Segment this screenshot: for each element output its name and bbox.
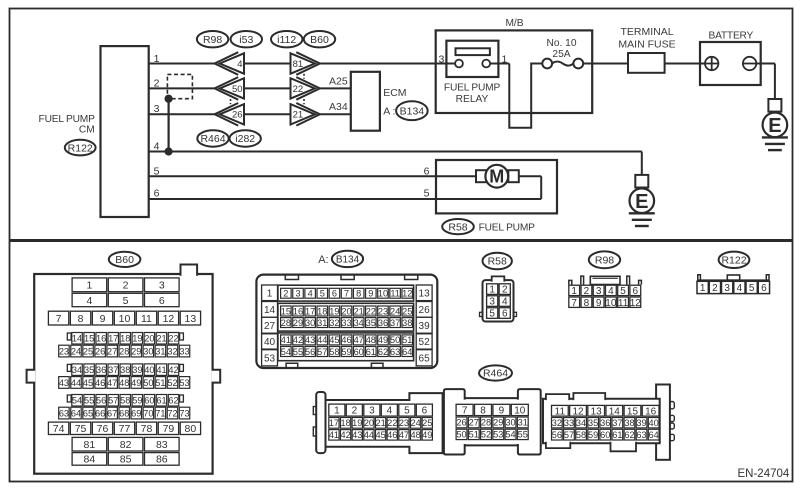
svg-text:63: 63 bbox=[636, 430, 646, 440]
svg-text:27: 27 bbox=[264, 321, 276, 332]
svg-text:15: 15 bbox=[84, 334, 94, 344]
svg-text:25: 25 bbox=[83, 346, 93, 356]
svg-text:64: 64 bbox=[402, 347, 412, 357]
svg-text:19: 19 bbox=[329, 306, 339, 316]
svg-text:4: 4 bbox=[502, 297, 508, 308]
svg-text:2: 2 bbox=[502, 285, 508, 296]
svg-text:CM: CM bbox=[79, 125, 95, 136]
svg-text:2: 2 bbox=[584, 286, 590, 297]
svg-text:40: 40 bbox=[649, 418, 659, 428]
svg-text:4: 4 bbox=[86, 295, 92, 307]
svg-text:62: 62 bbox=[624, 430, 634, 440]
svg-text:32: 32 bbox=[167, 346, 177, 356]
svg-text:13: 13 bbox=[591, 406, 603, 417]
svg-text:23: 23 bbox=[59, 346, 69, 356]
svg-text:6: 6 bbox=[422, 406, 428, 417]
svg-text:31: 31 bbox=[518, 418, 528, 428]
svg-text:7: 7 bbox=[571, 298, 577, 309]
svg-text:32: 32 bbox=[552, 418, 562, 428]
svg-text:FUEL PUMP: FUEL PUMP bbox=[444, 82, 501, 93]
svg-text:8: 8 bbox=[78, 313, 84, 325]
svg-text:28: 28 bbox=[481, 418, 491, 428]
svg-text:55: 55 bbox=[293, 347, 303, 357]
svg-text:EN-24704: EN-24704 bbox=[738, 468, 790, 480]
svg-text:21: 21 bbox=[375, 418, 385, 428]
svg-text:5: 5 bbox=[123, 295, 129, 307]
svg-text:3: 3 bbox=[439, 53, 445, 65]
svg-text:35: 35 bbox=[366, 318, 376, 328]
svg-text:51: 51 bbox=[402, 335, 412, 345]
svg-text:27: 27 bbox=[469, 418, 479, 428]
svg-text:50: 50 bbox=[232, 84, 243, 95]
svg-text:33: 33 bbox=[564, 418, 574, 428]
svg-text:R122: R122 bbox=[68, 142, 93, 154]
svg-text:19: 19 bbox=[132, 334, 142, 344]
svg-text:30: 30 bbox=[505, 418, 515, 428]
svg-text:55: 55 bbox=[518, 430, 528, 440]
svg-text:R98: R98 bbox=[203, 34, 222, 46]
svg-text:18: 18 bbox=[120, 334, 130, 344]
svg-text:57: 57 bbox=[317, 347, 327, 357]
svg-text:1: 1 bbox=[571, 286, 577, 297]
svg-text:85: 85 bbox=[120, 454, 132, 466]
svg-text:20: 20 bbox=[144, 334, 154, 344]
svg-text:50: 50 bbox=[390, 335, 400, 345]
svg-text:6: 6 bbox=[502, 309, 508, 320]
svg-text:63: 63 bbox=[390, 347, 400, 357]
svg-text:39: 39 bbox=[636, 418, 646, 428]
svg-text:41: 41 bbox=[329, 430, 339, 440]
svg-text:44: 44 bbox=[364, 430, 374, 440]
svg-text:82: 82 bbox=[120, 439, 132, 451]
svg-text:33: 33 bbox=[179, 346, 189, 356]
svg-text:64: 64 bbox=[649, 430, 659, 440]
svg-text:49: 49 bbox=[422, 430, 432, 440]
svg-text:3: 3 bbox=[369, 406, 375, 417]
svg-text:52: 52 bbox=[167, 378, 177, 388]
svg-text:51: 51 bbox=[155, 378, 165, 388]
svg-text:2: 2 bbox=[123, 280, 129, 292]
svg-text:33: 33 bbox=[341, 318, 351, 328]
svg-text:24: 24 bbox=[390, 306, 400, 316]
svg-text:64: 64 bbox=[71, 408, 81, 418]
svg-text:58: 58 bbox=[120, 396, 130, 406]
svg-text:59: 59 bbox=[588, 430, 598, 440]
svg-text:11: 11 bbox=[141, 313, 152, 325]
svg-text:R58: R58 bbox=[488, 256, 507, 268]
svg-text:68: 68 bbox=[119, 408, 129, 418]
svg-text:RELAY: RELAY bbox=[456, 94, 489, 105]
svg-text:57: 57 bbox=[108, 396, 118, 406]
svg-text:72: 72 bbox=[167, 408, 177, 418]
svg-text:1: 1 bbox=[489, 285, 495, 296]
svg-text:44: 44 bbox=[317, 335, 327, 345]
svg-text:59: 59 bbox=[341, 347, 351, 357]
svg-text:1: 1 bbox=[700, 283, 706, 294]
svg-text:56: 56 bbox=[552, 430, 562, 440]
svg-text:31: 31 bbox=[317, 318, 327, 328]
svg-text:16: 16 bbox=[645, 406, 657, 417]
svg-text:20: 20 bbox=[341, 306, 351, 316]
svg-text:86: 86 bbox=[156, 454, 168, 466]
svg-text:25: 25 bbox=[422, 418, 432, 428]
svg-text:5: 5 bbox=[320, 289, 325, 299]
svg-text:7: 7 bbox=[56, 313, 62, 325]
svg-text:78: 78 bbox=[141, 423, 153, 435]
svg-text:A:: A: bbox=[318, 254, 328, 266]
svg-text:A25: A25 bbox=[329, 75, 348, 87]
svg-text:42: 42 bbox=[168, 365, 178, 375]
svg-text:1: 1 bbox=[267, 288, 273, 299]
svg-text:2: 2 bbox=[352, 406, 358, 417]
svg-text:26: 26 bbox=[95, 346, 105, 356]
svg-text:18: 18 bbox=[340, 418, 350, 428]
svg-text:43: 43 bbox=[352, 430, 362, 440]
svg-text:53: 53 bbox=[264, 353, 276, 364]
svg-text:6: 6 bbox=[332, 289, 337, 299]
svg-text:7: 7 bbox=[462, 406, 468, 417]
svg-text:77: 77 bbox=[119, 423, 131, 435]
svg-text:36: 36 bbox=[378, 318, 388, 328]
svg-text:R464: R464 bbox=[200, 133, 225, 145]
svg-text:29: 29 bbox=[131, 346, 141, 356]
svg-text:21: 21 bbox=[354, 306, 364, 316]
svg-text:58: 58 bbox=[576, 430, 586, 440]
svg-text:39: 39 bbox=[419, 321, 431, 332]
svg-text:32: 32 bbox=[329, 318, 339, 328]
svg-text:29: 29 bbox=[493, 418, 503, 428]
svg-text:54: 54 bbox=[281, 347, 291, 357]
svg-text:46: 46 bbox=[387, 430, 397, 440]
svg-text:58: 58 bbox=[329, 347, 339, 357]
svg-text:14: 14 bbox=[264, 305, 276, 316]
svg-text:31: 31 bbox=[155, 346, 165, 356]
svg-text:12: 12 bbox=[630, 298, 642, 309]
svg-text:54: 54 bbox=[72, 396, 82, 406]
svg-text:18: 18 bbox=[317, 306, 327, 316]
svg-text:5: 5 bbox=[424, 188, 430, 200]
svg-text:43: 43 bbox=[59, 378, 69, 388]
svg-text:71: 71 bbox=[155, 408, 165, 418]
svg-text:9: 9 bbox=[499, 406, 505, 417]
svg-text:i53: i53 bbox=[239, 34, 253, 46]
svg-text:21: 21 bbox=[293, 110, 304, 121]
svg-text:B134: B134 bbox=[336, 255, 360, 266]
svg-text:34: 34 bbox=[354, 318, 364, 328]
svg-text:84: 84 bbox=[84, 454, 96, 466]
svg-text:81: 81 bbox=[293, 59, 304, 70]
svg-text:15: 15 bbox=[627, 406, 639, 417]
svg-text:54: 54 bbox=[505, 430, 515, 440]
svg-text:30: 30 bbox=[143, 346, 153, 356]
svg-text:14: 14 bbox=[72, 334, 82, 344]
svg-text:74: 74 bbox=[53, 423, 65, 435]
svg-text:62: 62 bbox=[378, 347, 388, 357]
svg-text:10: 10 bbox=[378, 289, 388, 299]
svg-text:67: 67 bbox=[107, 408, 117, 418]
svg-text:69: 69 bbox=[131, 408, 141, 418]
svg-text:14: 14 bbox=[609, 406, 621, 417]
svg-text:3: 3 bbox=[295, 289, 300, 299]
svg-text:2: 2 bbox=[283, 289, 288, 299]
svg-text:22: 22 bbox=[168, 334, 178, 344]
svg-text:17: 17 bbox=[305, 306, 315, 316]
svg-text:41: 41 bbox=[281, 335, 291, 345]
svg-text:46: 46 bbox=[341, 335, 351, 345]
svg-text:49: 49 bbox=[378, 335, 388, 345]
svg-text:5: 5 bbox=[489, 309, 495, 320]
svg-text:8: 8 bbox=[584, 298, 590, 309]
svg-text:16: 16 bbox=[293, 306, 303, 316]
svg-text:38: 38 bbox=[402, 318, 412, 328]
svg-text:3: 3 bbox=[724, 283, 730, 294]
svg-text:79: 79 bbox=[163, 423, 175, 435]
svg-text:48: 48 bbox=[366, 335, 376, 345]
svg-text:35: 35 bbox=[84, 365, 94, 375]
svg-text:39: 39 bbox=[132, 365, 142, 375]
svg-text:20: 20 bbox=[364, 418, 374, 428]
svg-text:26: 26 bbox=[419, 305, 431, 316]
svg-text:37: 37 bbox=[390, 318, 400, 328]
svg-text:13: 13 bbox=[419, 288, 431, 299]
svg-text:45: 45 bbox=[329, 335, 339, 345]
svg-text:47: 47 bbox=[354, 335, 364, 345]
svg-text:80: 80 bbox=[185, 423, 197, 435]
svg-text:50: 50 bbox=[456, 430, 466, 440]
svg-text:47: 47 bbox=[107, 378, 117, 388]
svg-text:76: 76 bbox=[97, 423, 109, 435]
svg-text:1: 1 bbox=[334, 406, 340, 417]
svg-text:52: 52 bbox=[481, 430, 491, 440]
svg-text:29: 29 bbox=[293, 318, 303, 328]
svg-text:B60: B60 bbox=[310, 34, 329, 46]
svg-text:65: 65 bbox=[419, 353, 431, 364]
svg-text:A :: A : bbox=[383, 105, 395, 117]
svg-text:6: 6 bbox=[424, 166, 430, 178]
svg-text:B60: B60 bbox=[115, 254, 134, 266]
svg-text:66: 66 bbox=[95, 408, 105, 418]
svg-text:17: 17 bbox=[329, 418, 339, 428]
svg-text:23: 23 bbox=[399, 418, 409, 428]
svg-text:51: 51 bbox=[469, 430, 479, 440]
svg-text:M: M bbox=[489, 167, 504, 187]
svg-text:ECM: ECM bbox=[383, 87, 406, 99]
svg-text:34: 34 bbox=[576, 418, 586, 428]
svg-text:38: 38 bbox=[120, 365, 130, 375]
svg-text:60: 60 bbox=[354, 347, 364, 357]
svg-text:19: 19 bbox=[352, 418, 362, 428]
svg-text:50: 50 bbox=[143, 378, 153, 388]
svg-text:61: 61 bbox=[366, 347, 376, 357]
svg-text:15: 15 bbox=[281, 306, 291, 316]
svg-text:41: 41 bbox=[156, 365, 166, 375]
svg-text:45: 45 bbox=[375, 430, 385, 440]
svg-text:3: 3 bbox=[159, 280, 165, 292]
svg-text:81: 81 bbox=[84, 439, 96, 451]
svg-text:26: 26 bbox=[232, 110, 243, 121]
svg-text:35: 35 bbox=[588, 418, 598, 428]
svg-text:TERMINAL: TERMINAL bbox=[620, 26, 673, 38]
svg-text:24: 24 bbox=[410, 418, 420, 428]
svg-text:BATTERY: BATTERY bbox=[708, 30, 753, 41]
svg-text:61: 61 bbox=[156, 396, 166, 406]
svg-text:59: 59 bbox=[132, 396, 142, 406]
svg-text:37: 37 bbox=[612, 418, 622, 428]
svg-text:83: 83 bbox=[156, 439, 168, 451]
svg-text:8: 8 bbox=[480, 406, 486, 417]
svg-text:12: 12 bbox=[163, 313, 175, 325]
svg-text:E: E bbox=[768, 115, 781, 137]
svg-text:75: 75 bbox=[75, 423, 87, 435]
svg-text:48: 48 bbox=[119, 378, 129, 388]
svg-text:10: 10 bbox=[119, 313, 131, 325]
svg-text:10: 10 bbox=[605, 298, 617, 309]
svg-text:56: 56 bbox=[96, 396, 106, 406]
svg-text:44: 44 bbox=[71, 378, 81, 388]
svg-text:60: 60 bbox=[144, 396, 154, 406]
svg-text:25A: 25A bbox=[552, 49, 570, 60]
svg-text:6: 6 bbox=[154, 188, 160, 200]
svg-text:42: 42 bbox=[293, 335, 303, 345]
svg-text:B134: B134 bbox=[400, 105, 425, 117]
svg-text:30: 30 bbox=[305, 318, 315, 328]
svg-text:No. 10: No. 10 bbox=[546, 38, 576, 49]
svg-text:36: 36 bbox=[600, 418, 610, 428]
svg-text:4: 4 bbox=[387, 406, 393, 417]
svg-text:34: 34 bbox=[72, 365, 82, 375]
svg-text:28: 28 bbox=[119, 346, 129, 356]
svg-text:1: 1 bbox=[86, 280, 92, 292]
svg-text:11: 11 bbox=[555, 406, 566, 417]
svg-text:11: 11 bbox=[618, 298, 629, 309]
svg-text:73: 73 bbox=[179, 408, 189, 418]
svg-text:E: E bbox=[635, 191, 648, 213]
svg-text:38: 38 bbox=[624, 418, 634, 428]
svg-text:4: 4 bbox=[608, 286, 614, 297]
svg-text:53: 53 bbox=[493, 430, 503, 440]
svg-text:13: 13 bbox=[185, 313, 197, 325]
svg-text:5: 5 bbox=[620, 286, 626, 297]
svg-text:i112: i112 bbox=[277, 34, 296, 46]
svg-text:i282: i282 bbox=[235, 133, 255, 145]
svg-text:8: 8 bbox=[356, 289, 361, 299]
svg-text:21: 21 bbox=[156, 334, 166, 344]
svg-text:43: 43 bbox=[305, 335, 315, 345]
svg-text:42: 42 bbox=[340, 430, 350, 440]
svg-text:49: 49 bbox=[131, 378, 141, 388]
svg-text:A34: A34 bbox=[329, 101, 348, 113]
svg-text:R122: R122 bbox=[721, 255, 746, 267]
svg-text:48: 48 bbox=[410, 430, 420, 440]
svg-text:6: 6 bbox=[761, 283, 767, 294]
svg-text:6: 6 bbox=[159, 295, 165, 307]
svg-text:23: 23 bbox=[378, 306, 388, 316]
svg-text:9: 9 bbox=[596, 298, 602, 309]
svg-text:55: 55 bbox=[84, 396, 94, 406]
svg-text:4: 4 bbox=[237, 59, 242, 70]
svg-text:9: 9 bbox=[100, 313, 106, 325]
svg-text:6: 6 bbox=[633, 286, 639, 297]
svg-text:22: 22 bbox=[387, 418, 397, 428]
svg-text:4: 4 bbox=[308, 289, 313, 299]
svg-text:22: 22 bbox=[293, 84, 304, 95]
svg-text:24: 24 bbox=[71, 346, 81, 356]
svg-text:25: 25 bbox=[402, 306, 412, 316]
svg-text:27: 27 bbox=[107, 346, 117, 356]
svg-text:3: 3 bbox=[489, 297, 495, 308]
svg-text:45: 45 bbox=[83, 378, 93, 388]
svg-text:17: 17 bbox=[108, 334, 118, 344]
svg-text:46: 46 bbox=[95, 378, 105, 388]
svg-text:70: 70 bbox=[143, 408, 153, 418]
svg-text:M/B: M/B bbox=[505, 18, 523, 29]
svg-text:52: 52 bbox=[419, 337, 431, 348]
svg-text:57: 57 bbox=[564, 430, 574, 440]
svg-text:2: 2 bbox=[712, 283, 718, 294]
svg-text:40: 40 bbox=[264, 337, 276, 348]
svg-text:3: 3 bbox=[596, 286, 602, 297]
svg-text:61: 61 bbox=[612, 430, 622, 440]
svg-text:MAIN FUSE: MAIN FUSE bbox=[618, 39, 675, 51]
svg-text:36: 36 bbox=[96, 365, 106, 375]
svg-text:R464: R464 bbox=[483, 368, 508, 380]
svg-text:65: 65 bbox=[83, 408, 93, 418]
svg-text:37: 37 bbox=[108, 365, 118, 375]
svg-text:56: 56 bbox=[305, 347, 315, 357]
svg-text:40: 40 bbox=[144, 365, 154, 375]
svg-text:R98: R98 bbox=[595, 255, 614, 267]
svg-text:9: 9 bbox=[368, 289, 373, 299]
svg-text:FUEL PUMP: FUEL PUMP bbox=[479, 223, 536, 234]
svg-text:R58: R58 bbox=[448, 221, 467, 233]
svg-text:16: 16 bbox=[96, 334, 106, 344]
svg-text:26: 26 bbox=[456, 418, 466, 428]
svg-text:63: 63 bbox=[59, 408, 69, 418]
svg-text:22: 22 bbox=[366, 306, 376, 316]
svg-text:FUEL PUMP: FUEL PUMP bbox=[39, 114, 96, 125]
svg-text:12: 12 bbox=[572, 406, 584, 417]
svg-text:10: 10 bbox=[514, 406, 526, 417]
svg-text:47: 47 bbox=[399, 430, 409, 440]
svg-text:7: 7 bbox=[344, 289, 349, 299]
svg-text:60: 60 bbox=[600, 430, 610, 440]
svg-text:5: 5 bbox=[404, 406, 410, 417]
svg-text:62: 62 bbox=[168, 396, 178, 406]
svg-text:28: 28 bbox=[281, 318, 291, 328]
svg-text:11: 11 bbox=[390, 289, 400, 299]
svg-text:12: 12 bbox=[402, 289, 412, 299]
svg-text:4: 4 bbox=[737, 283, 743, 294]
svg-text:53: 53 bbox=[179, 378, 189, 388]
svg-text:5: 5 bbox=[749, 283, 755, 294]
